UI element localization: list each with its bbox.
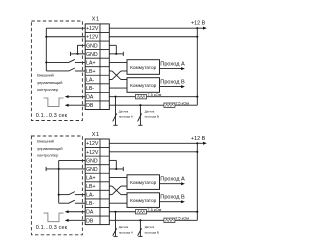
wire GND row3 left xyxy=(78,44,86,46)
svg-text:+12V: +12V xyxy=(86,26,99,32)
wire LA+ to commutator 1 xyxy=(109,177,127,179)
svg-text:GND: GND xyxy=(86,167,98,173)
sensor A leader line xyxy=(113,228,117,235)
resistor R2 7.5k xyxy=(164,103,175,107)
sensor A wire stub xyxy=(115,97,117,126)
svg-text:Проход A: Проход A xyxy=(160,176,185,182)
svg-text:Датчик: Датчик xyxy=(119,225,129,229)
svg-text:GND: GND xyxy=(86,158,98,164)
svg-text:LB-: LB- xyxy=(86,86,94,92)
junction rail/row2 xyxy=(196,151,198,153)
commutator box 2 xyxy=(127,193,160,208)
sensor B leader line xyxy=(138,113,142,121)
sensor B terminal bar xyxy=(138,124,142,126)
sensor A terminal bar xyxy=(113,124,117,126)
output arrow Prohod B xyxy=(160,85,185,88)
sensor B leader line xyxy=(138,228,142,235)
connector X1 row divider 6 xyxy=(85,189,109,191)
connector X1 row divider 8 xyxy=(85,91,109,93)
+12V supply arrow xyxy=(197,142,207,145)
connector X1 row divider 5 xyxy=(85,181,109,183)
junction rail/row2 xyxy=(196,36,198,38)
wire resistor R1 to rail xyxy=(147,211,198,213)
svg-text:7.5 кОм: 7.5 кОм xyxy=(175,101,189,106)
resistor R2 7.5k xyxy=(164,218,175,222)
svg-text:+12V: +12V xyxy=(86,141,99,147)
svg-text:Датчик: Датчик xyxy=(145,225,155,229)
connector X1 outline xyxy=(85,24,109,110)
connector X1 row divider 1 xyxy=(85,31,109,33)
junction DB/sensor B xyxy=(139,104,141,106)
connector X1 row divider 7 xyxy=(85,198,109,200)
svg-text:X1: X1 xyxy=(92,132,100,138)
svg-text:7.5 кОм: 7.5 кОм xyxy=(147,207,161,212)
junction GND left xyxy=(58,168,60,170)
wire GND row4 left xyxy=(71,53,86,55)
controller GND terminal bar xyxy=(45,167,47,171)
switch S2 (LB-) xyxy=(59,200,85,203)
svg-text:LA-: LA- xyxy=(86,77,94,83)
arrow DB to controller xyxy=(65,104,85,107)
connector X1 row divider 5 xyxy=(85,66,109,68)
wire +12V row1 to rail xyxy=(109,142,197,144)
pulse waveform symbol xyxy=(44,98,64,107)
commutator box 1 xyxy=(127,60,160,75)
svg-text:управляющий: управляющий xyxy=(37,80,62,85)
svg-text:DB: DB xyxy=(86,218,94,224)
wire DA to resistor xyxy=(109,211,135,213)
wire +12V row2 to rail xyxy=(109,151,197,153)
wire bus to pin +12V row2 xyxy=(46,36,85,38)
svg-text:+12V: +12V xyxy=(86,35,99,41)
junction rail/row1 xyxy=(196,142,198,144)
junction rail/row1 xyxy=(196,27,198,29)
connector X1 row divider 1 xyxy=(85,147,109,149)
resistor R1 7.5k xyxy=(136,94,147,98)
svg-text:7.5 кОм: 7.5 кОм xyxy=(147,92,161,97)
switch S2 (LB+) xyxy=(46,68,85,71)
junction bus/LA+ xyxy=(45,61,47,63)
svg-text:DA: DA xyxy=(86,210,94,216)
resistor R1 7.5k xyxy=(136,210,147,214)
svg-text:X1: X1 xyxy=(92,17,100,23)
svg-text:прохода A: прохода A xyxy=(119,231,133,235)
GND terminal bar right xyxy=(122,52,124,56)
wire GND row4 right xyxy=(109,168,123,170)
connector X1 outline xyxy=(85,139,109,225)
wire GND row3-row4 link xyxy=(77,45,79,54)
controller GND terminal bar xyxy=(70,52,72,56)
svg-text:DB: DB xyxy=(86,103,94,109)
junction bus/LA- xyxy=(58,194,60,196)
wire GND row4 left xyxy=(46,168,85,170)
svg-text:Проход A: Проход A xyxy=(160,61,185,67)
connector X1 row divider 7 xyxy=(85,83,109,85)
wire +12V row1 to rail xyxy=(109,27,197,29)
connector X1 row divider 4 xyxy=(85,57,109,59)
connector X1 column divider xyxy=(99,24,101,110)
svg-text:Коммутатор: Коммутатор xyxy=(130,180,156,185)
switch S1 (LA-) xyxy=(59,192,85,195)
junction bus/row2 xyxy=(45,36,47,38)
wire resistor R2 to rail xyxy=(175,219,198,221)
sensor B wire stub xyxy=(139,105,141,125)
crossover LB+/LA- wires xyxy=(109,71,127,80)
svg-text:Датчик: Датчик xyxy=(145,109,155,113)
junction GND right xyxy=(115,53,117,55)
svg-text:Проход B: Проход B xyxy=(160,79,185,85)
svg-text:Коммутатор: Коммутатор xyxy=(130,83,156,88)
sensor B wire stub xyxy=(139,220,141,236)
svg-text:Датчик: Датчик xyxy=(119,109,129,113)
svg-text:GND: GND xyxy=(86,43,98,49)
junction GND right xyxy=(115,168,117,170)
svg-text:+12 В: +12 В xyxy=(191,21,206,27)
svg-text:прохода B: прохода B xyxy=(145,231,159,235)
output arrow Prohod A xyxy=(160,67,185,70)
svg-text:Коммутатор: Коммутатор xyxy=(130,198,156,203)
wire DB to resistor xyxy=(109,104,164,106)
+12V rail vertical xyxy=(196,28,198,105)
svg-text:+12V: +12V xyxy=(86,150,99,156)
svg-text:0.1...0.3 сек: 0.1...0.3 сек xyxy=(36,113,68,119)
connector X1 row divider 3 xyxy=(85,164,109,166)
svg-text:Внешний: Внешний xyxy=(37,139,54,144)
wire GND row4 right xyxy=(109,53,123,55)
wire resistor R2 to rail xyxy=(175,104,198,106)
controller GND bus vertical xyxy=(58,160,60,203)
connector X1 row divider 2 xyxy=(85,155,109,157)
controller +12V bus vertical xyxy=(45,28,47,71)
svg-text:Проход B: Проход B xyxy=(160,194,185,200)
wire DA to resistor xyxy=(109,96,135,98)
arrow DA to controller xyxy=(65,210,85,213)
junction rail/DA xyxy=(196,211,198,213)
GND terminal bar right xyxy=(122,167,124,171)
svg-text:управляющий: управляющий xyxy=(37,146,62,151)
+12V supply arrow xyxy=(197,27,207,30)
wire GND row3 right xyxy=(109,44,116,46)
sensor B terminal bar xyxy=(138,235,142,237)
external controller dashed box xyxy=(31,136,82,235)
svg-text:GND: GND xyxy=(86,52,98,58)
sensor A wire stub xyxy=(115,212,117,237)
svg-text:LB+: LB+ xyxy=(86,184,95,190)
svg-text:LB+: LB+ xyxy=(86,69,95,75)
wire GND row3-row4 link right xyxy=(115,45,117,54)
wire LA+ to commutator 1 xyxy=(109,61,127,63)
svg-text:7.5 кОм: 7.5 кОм xyxy=(175,216,189,221)
junction DA/sensor A xyxy=(114,96,116,98)
wire GND row3-row4 link right xyxy=(115,160,117,169)
+12V rail vertical xyxy=(196,143,198,220)
svg-text:LA+: LA+ xyxy=(86,175,95,181)
wire LB- to commutator 2 xyxy=(109,87,127,89)
connector X1 row divider 2 xyxy=(85,40,109,42)
connector X1 row divider 8 xyxy=(85,206,109,208)
svg-text:Коммутатор: Коммутатор xyxy=(130,65,156,70)
junction rail/DA xyxy=(196,96,198,98)
svg-text:прохода B: прохода B xyxy=(145,114,159,118)
connector X1 column divider xyxy=(99,139,101,225)
svg-text:0.1...0.3 сек: 0.1...0.3 сек xyxy=(36,225,68,231)
svg-text:Внешний: Внешний xyxy=(37,72,54,77)
svg-text:DA: DA xyxy=(86,95,94,101)
pulse waveform symbol xyxy=(44,213,64,222)
svg-text:контроллер: контроллер xyxy=(37,87,58,92)
wire LB- to commutator 2 xyxy=(109,202,127,204)
svg-text:LA-: LA- xyxy=(86,193,94,199)
svg-text:прохода A: прохода A xyxy=(119,114,133,118)
sensor A leader line xyxy=(113,113,117,121)
junction DA/sensor A xyxy=(114,211,116,213)
svg-text:контроллер: контроллер xyxy=(37,153,58,158)
commutator box 1 xyxy=(127,175,160,190)
junction GND left xyxy=(76,53,78,55)
arrow DA to controller xyxy=(65,95,85,98)
wire DB to resistor xyxy=(109,219,164,221)
output arrow Prohod A xyxy=(160,182,185,185)
connector X1 row divider 9 xyxy=(85,215,109,217)
crossover LB+/LA- wires xyxy=(109,186,127,195)
connector X1 row divider 4 xyxy=(85,172,109,174)
wire resistor R1 to rail xyxy=(147,96,198,98)
svg-text:+12 В: +12 В xyxy=(191,136,206,142)
arrow DB to controller xyxy=(65,219,85,222)
switch S1 (LA+) xyxy=(46,59,85,62)
svg-text:LB-: LB- xyxy=(86,201,94,207)
svg-text:LA+: LA+ xyxy=(86,60,95,66)
external controller dashed box xyxy=(31,21,82,121)
connector X1 row divider 3 xyxy=(85,49,109,51)
sensor A terminal bar xyxy=(113,235,117,237)
commutator box 2 xyxy=(127,78,160,93)
connector X1 row divider 9 xyxy=(85,100,109,102)
wire GND row3 left xyxy=(59,159,85,161)
wire +12V row2 to rail xyxy=(109,36,197,38)
wire bus to pin +12V row1 xyxy=(46,27,85,29)
connector X1 row divider 6 xyxy=(85,74,109,76)
junction DB/sensor B xyxy=(139,219,141,221)
wire GND row3 right xyxy=(109,159,116,161)
output arrow Prohod B xyxy=(160,200,185,203)
